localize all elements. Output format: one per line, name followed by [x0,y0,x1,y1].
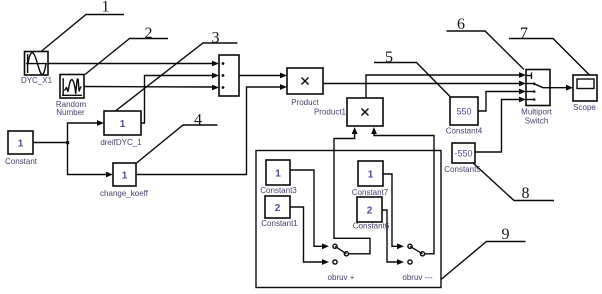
wire Mux to Product input 1 [239,73,287,79]
svg-text:DYC_X1: DYC_X1 [21,76,53,85]
svg-text:-550: -550 [454,149,472,159]
svg-text:1: 1 [122,171,128,182]
callout 5 [374,49,450,97]
svg-text:1: 1 [102,0,110,16]
wire Constant1 to left switch bottom input [290,207,329,265]
block Product1 [314,98,383,126]
svg-text:obruv +: obruv + [328,273,355,282]
wire Constant4 to Multiport Switch input 3 [478,89,526,111]
block Constant [5,131,38,166]
wire change_koeff to Product input 2 [136,84,287,174]
block change_koeff [100,163,149,198]
block DYC_X1 sine source [21,52,53,86]
svg-text:6: 6 [457,16,465,33]
svg-text:1: 1 [368,170,374,181]
callout 8 [473,163,555,203]
svg-text:obruv ---: obruv --- [402,273,433,282]
svg-text:1: 1 [120,119,126,130]
svg-text:4: 4 [194,112,202,129]
wire Constant5 to Multiport Switch input 4 [475,97,526,152]
svg-text:Scope: Scope [573,103,596,112]
svg-text:2: 2 [367,206,373,217]
wire Multiport Switch to Scope [550,85,573,91]
svg-text:Constant: Constant [5,157,38,166]
callout 4 [137,112,218,164]
block Constant3 [260,160,297,195]
block Constant5 [444,143,481,174]
wire DYC_X1 to Mux input 1 [48,61,219,67]
svg-text:Number: Number [56,108,85,117]
block Constant1 [261,196,298,228]
svg-text:8: 8 [522,185,530,202]
block Constant6 [353,197,390,231]
callout 7 [509,25,590,75]
svg-text:550: 550 [456,107,471,117]
left manual switch obruv + [328,244,355,282]
wire Constant3 to left switch top input [290,170,329,249]
svg-text:Constant7: Constant7 [352,188,389,197]
svg-text:9: 9 [502,226,510,243]
wire branch to dreifDYC_1 [68,120,105,142]
wire Constant7 to right switch top input [383,174,404,249]
svg-text:Constant3: Constant3 [260,186,297,195]
svg-text:1: 1 [275,169,281,180]
callout 6 [447,16,525,70]
svg-text:2: 2 [145,25,153,42]
block Scope [573,75,597,112]
wire dreifDYC_1 to Mux input 2 [141,73,219,123]
block Mux [219,55,239,96]
svg-text:Constant6: Constant6 [353,222,390,231]
block Constant4 [446,97,483,136]
svg-text:1: 1 [18,139,24,150]
svg-text:Constant4: Constant4 [446,127,483,136]
wire branch to change_koeff [68,143,114,178]
svg-text:Constant1: Constant1 [261,219,298,228]
svg-text:2: 2 [275,203,281,214]
wire left switch output to Product1 bottom-left input [334,127,370,254]
callout 2 [85,25,168,75]
block Product [287,68,323,107]
callout 1 [41,0,124,52]
wire Product to Multiport Switch input 2 [323,81,526,87]
svg-text:5: 5 [385,49,393,66]
svg-text:dreifDYC_1: dreifDYC_1 [100,138,142,147]
svg-text:Switch: Switch [525,117,549,126]
block Multiport Switch [521,70,552,126]
block dreifDYC_1 [100,111,142,147]
wire Constant to branch node [33,142,68,144]
wire right switch output to Product1 bottom-right input [371,127,434,254]
callout 3 [116,30,238,111]
wire Product1 to Multiport Switch input 1 [366,72,526,98]
svg-text:Product1: Product1 [314,108,347,117]
svg-text:7: 7 [520,25,528,42]
wire Constant6 to right switch bottom input [382,210,404,265]
block Random Number [56,75,87,118]
right manual switch obruv three-dashes [402,244,433,282]
callout 9 [441,226,526,280]
svg-text:3: 3 [212,30,220,47]
junction node [66,141,69,144]
svg-text:change_koeff: change_koeff [100,189,149,198]
svg-text:Product: Product [291,98,319,107]
svg-text:Multiport: Multiport [521,108,552,117]
block Constant7 [352,161,389,197]
subsystem box (group 9) [256,151,441,288]
wire Random Number to Mux input 3 [84,85,219,91]
